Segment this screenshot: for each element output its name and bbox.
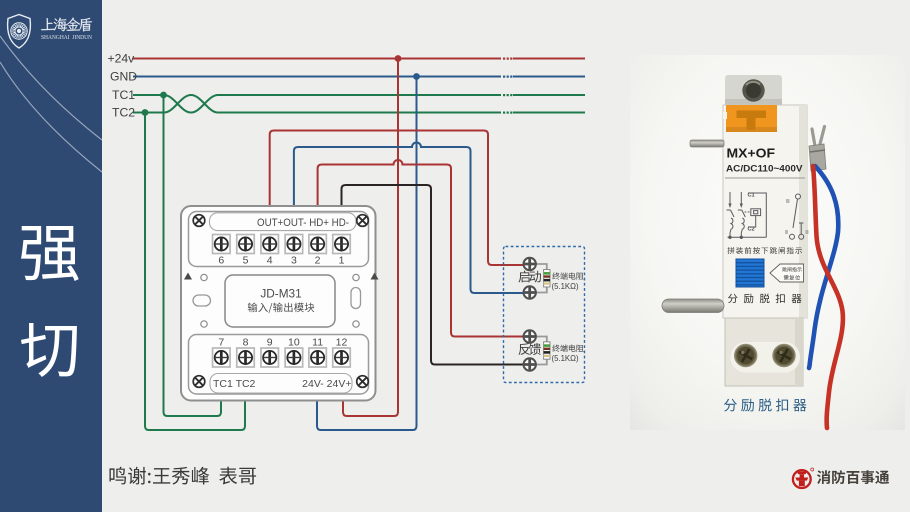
svg-text:TC1 TC2: TC1 TC2 <box>213 378 256 390</box>
svg-text:GND: GND <box>110 70 137 84</box>
svg-text:11: 11 <box>312 337 323 349</box>
svg-text:TC2: TC2 <box>112 106 135 120</box>
svg-text:8: 8 <box>243 337 249 349</box>
svg-text:9: 9 <box>267 337 273 349</box>
svg-text:C2: C2 <box>748 227 755 233</box>
svg-text:JD-M31: JD-M31 <box>260 287 301 301</box>
svg-text:3: 3 <box>291 255 297 267</box>
svg-text:6: 6 <box>218 255 224 267</box>
svg-text:MX+OF: MX+OF <box>727 146 776 161</box>
svg-text:(5.1KΩ): (5.1KΩ) <box>552 354 579 363</box>
svg-text:SHANGHAI JINDUN: SHANGHAI JINDUN <box>41 35 93 41</box>
svg-text:C1: C1 <box>748 193 755 199</box>
svg-text:10: 10 <box>288 337 300 349</box>
svg-text:OUT+OUT- HD+ HD-: OUT+OUT- HD+ HD- <box>257 217 349 229</box>
svg-text:TC1: TC1 <box>112 88 135 102</box>
svg-text:5: 5 <box>243 255 249 267</box>
svg-text:+24v: +24v <box>108 52 136 66</box>
svg-text:4: 4 <box>267 255 273 267</box>
svg-text:1: 1 <box>339 255 345 267</box>
svg-text:2: 2 <box>315 255 321 267</box>
svg-text:(5.1KΩ): (5.1KΩ) <box>552 282 579 291</box>
svg-text:7: 7 <box>218 337 224 349</box>
svg-text:AC/DC110~400V: AC/DC110~400V <box>726 163 803 174</box>
svg-text:12: 12 <box>336 337 348 349</box>
svg-text:24V- 24V+: 24V- 24V+ <box>302 378 351 390</box>
